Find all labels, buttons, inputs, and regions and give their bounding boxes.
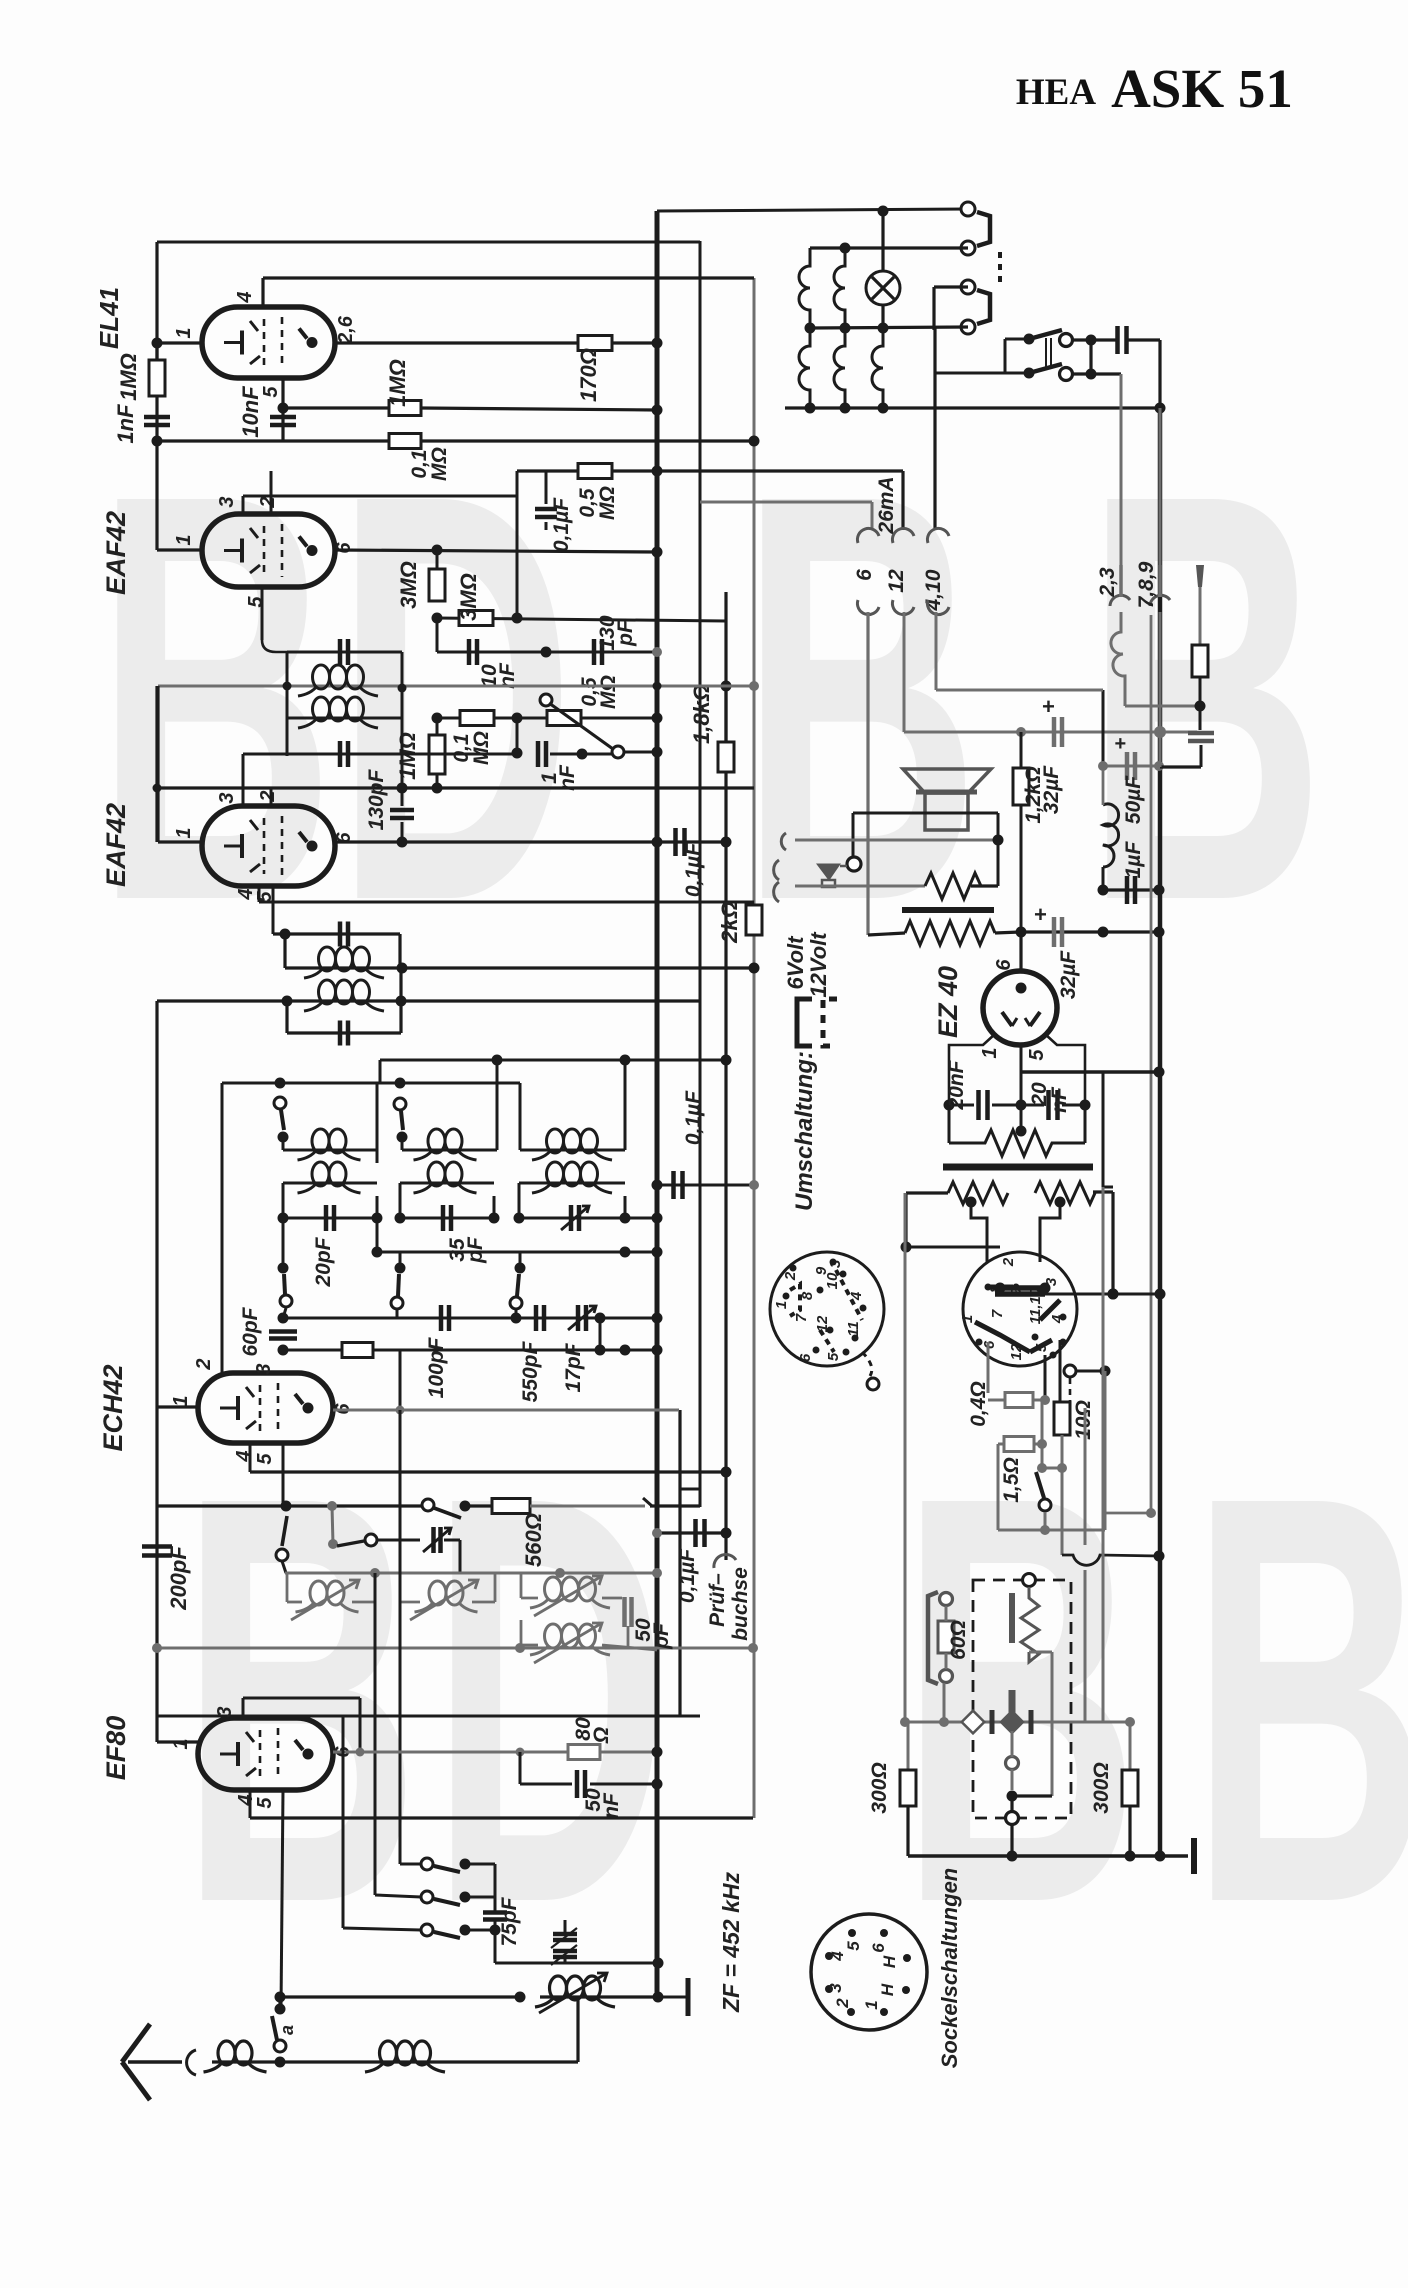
wire x=1151 grey parallel — [1150, 615, 1153, 1513]
switch link — [1045, 338, 1047, 368]
svg-text:12Volt: 12Volt — [806, 931, 831, 998]
svg-text:20nF: 20nF — [945, 1059, 968, 1110]
ground — [657, 1963, 660, 1997]
contact bar left — [990, 1710, 995, 1734]
wire to node — [258, 2060, 372, 2063]
switch a — [274, 2040, 286, 2052]
wire pin3 up — [242, 754, 245, 806]
wire pin2 up — [270, 788, 273, 806]
svg-text:2: 2 — [257, 790, 279, 802]
wire y=1722 line — [905, 1721, 1130, 1724]
svg-text:pF: pF — [614, 619, 637, 647]
svg-text:2: 2 — [193, 1358, 215, 1370]
svg-text:1: 1 — [170, 1395, 192, 1406]
svg-text:Prüf–: Prüf– — [706, 1573, 729, 1627]
wire x=949 down — [948, 1105, 951, 1143]
field coil choke — [1102, 690, 1105, 766]
node x=754 y=968 — [749, 963, 760, 974]
node x=287 y=1001 — [282, 996, 293, 1007]
svg-text:ECH42: ECH42 — [98, 1364, 128, 1451]
wire y=1060 line — [380, 1059, 726, 1062]
wire left rail x=157 lower — [155, 1001, 158, 1742]
trimmer antenna 2 — [553, 1949, 577, 1954]
svg-text:+: + — [1034, 902, 1047, 927]
svg-text:3: 3 — [214, 1706, 236, 1717]
svg-text:7: 7 — [989, 1309, 1006, 1318]
wire x=1103 mid — [1102, 1187, 1105, 1722]
capacitor right edge — [1199, 706, 1202, 730]
svg-text:4,10: 4,10 — [922, 569, 945, 611]
svg-text:11: 11 — [845, 1321, 862, 1337]
switch band col1 — [274, 1097, 286, 1109]
wire col1 left down — [282, 1183, 285, 1218]
switch row1 — [421, 1858, 433, 1870]
svg-text:EAF42: EAF42 — [101, 803, 131, 887]
rotary switch 12V (dashed) — [770, 1252, 884, 1366]
resistor fuse right — [1199, 565, 1202, 645]
transformer winding secondary a — [799, 328, 810, 408]
wire cathode line y=788 — [158, 786, 754, 789]
resistor 1,8kΩ — [724, 685, 727, 742]
vibrator contact diamond open — [962, 1711, 985, 1734]
wire y=1716 line — [157, 1715, 700, 1718]
60Ω bracket — [928, 1592, 938, 1684]
wire ground line y=1856 — [908, 1854, 1188, 1858]
capacitor 0,1µF (IF bus) — [657, 1184, 754, 1187]
vibrator stem — [1009, 1690, 1016, 1713]
svg-text:3: 3 — [253, 1363, 275, 1374]
wire x=222 to ECH42 — [221, 1083, 224, 1373]
terminal circle 4 — [961, 320, 975, 334]
wire y=886 line — [795, 885, 925, 888]
svg-text:1,5Ω: 1,5Ω — [1000, 1457, 1023, 1503]
svg-text:HEA: HEA — [1016, 72, 1096, 113]
wire bus x=700 — [699, 241, 702, 1507]
wire tube1 pin5 down — [261, 587, 264, 640]
wire pin5 down x=283 — [281, 1790, 283, 2009]
node y=410 bus — [652, 405, 663, 416]
trimmer antenna 1 — [564, 1920, 567, 1932]
svg-text:6: 6 — [853, 569, 876, 581]
capacitor 50pF — [602, 1597, 622, 1600]
contact bar right — [1029, 1710, 1034, 1734]
coil L3a — [520, 1149, 625, 1152]
node y=1752 bus — [652, 1747, 663, 1758]
wire x=868 heater line — [866, 612, 869, 935]
coil IFT2 secondary — [319, 980, 336, 1004]
switch row3 — [421, 1924, 433, 1936]
svg-text:1,8kΩ: 1,8kΩ — [689, 684, 714, 744]
wire x=1021 1045-1072 — [1020, 1045, 1023, 1105]
capacitor 130pF grid — [401, 788, 404, 806]
wire 170Ω to bus — [612, 341, 657, 344]
wire y=718 line — [437, 717, 460, 720]
node x=402 y=968 — [397, 963, 408, 974]
wire pin5 down — [282, 1443, 285, 1506]
terminal circle 1 — [961, 202, 975, 216]
wire anode EAF42#1 y=550 — [335, 550, 657, 552]
wire x=400 frame upper — [398, 934, 401, 968]
wire col1 right down — [376, 1196, 379, 1252]
tube EZ40 — [983, 971, 1057, 1045]
svg-text:0,1µF: 0,1µF — [682, 1090, 705, 1145]
wire 1MΩ to bus — [421, 408, 657, 410]
wire to x=400 — [373, 1349, 400, 1352]
capacitor 20nF right — [1021, 1104, 1044, 1107]
tube EL41 — [202, 307, 335, 378]
svg-text:200pF: 200pF — [166, 1546, 191, 1611]
wire y=1350 line — [283, 1349, 657, 1352]
node x=657 y=842 — [652, 837, 663, 848]
tube EF80 — [198, 1718, 333, 1790]
wire 1,2k down — [1020, 805, 1023, 932]
wire tap left step — [966, 1197, 977, 1208]
wire pot to bus — [581, 717, 657, 720]
svg-text:a: a — [277, 2025, 297, 2035]
connector 7,8,9 — [1150, 595, 1170, 606]
node pin5 junction — [278, 403, 289, 414]
wire x=1091 — [1089, 340, 1092, 374]
switch col2 row2 — [399, 1252, 402, 1268]
node x=625 y=1060 — [620, 1055, 631, 1066]
wire right bus x=1160 upper — [1158, 340, 1161, 408]
tube ECH42 — [198, 1373, 333, 1443]
switch osc1 — [282, 1516, 287, 1546]
svg-text:EAF42: EAF42 — [101, 511, 131, 595]
IFT2 frame left lower — [285, 1001, 288, 1033]
wire x=1085 down — [1084, 1105, 1087, 1143]
contact diamond solid — [999, 1709, 1024, 1734]
node x=402 y=842 — [397, 837, 408, 848]
wire heater right frame — [1093, 1190, 1113, 1193]
node T1 right — [398, 684, 407, 693]
capacitor IFT2 top — [338, 922, 343, 947]
speaker frame — [853, 812, 998, 815]
wire x=905 long — [904, 1193, 907, 1722]
wire y=1506 bus end — [650, 1504, 700, 1507]
vibrator wire out — [1029, 1651, 1052, 1654]
coil osc A — [286, 1573, 289, 1602]
wire coil to ground — [610, 1995, 658, 1998]
wire cap down — [545, 522, 548, 530]
svg-text:1: 1 — [979, 1047, 1001, 1058]
svg-text:3MΩ: 3MΩ — [456, 573, 481, 621]
wire x=1160 to connector — [1159, 408, 1162, 565]
svg-text:1nF: 1nF — [113, 404, 138, 444]
node pot bus — [652, 713, 663, 724]
resistor 1MΩ vertical — [436, 718, 439, 735]
svg-text:2: 2 — [833, 1998, 852, 2009]
svg-text:B: B — [1190, 1375, 1408, 2023]
node anode bus y=552 — [652, 547, 663, 558]
switch 1,5Ω — [1037, 1463, 1047, 1473]
capacitor 60pF — [278, 1313, 289, 1324]
capacitor 1µF — [1103, 888, 1159, 891]
wire 1MΩ to y=788 — [436, 774, 439, 788]
svg-text:1: 1 — [862, 2000, 881, 2009]
svg-text:ASK 51: ASK 51 — [1111, 58, 1293, 119]
svg-text:2: 2 — [1000, 1257, 1017, 1267]
wire x=1121 down — [1120, 374, 1123, 565]
capacitor 50nF — [519, 1752, 522, 1784]
node y=441 — [152, 436, 163, 447]
wire y=1963 line — [495, 1962, 658, 1965]
terminal circle 3 — [961, 280, 975, 294]
node y=1784 bus — [652, 1779, 663, 1790]
wire y=618 — [437, 618, 726, 621]
node y=1218 bus — [652, 1213, 663, 1224]
svg-text:MΩ: MΩ — [470, 731, 493, 765]
wire cathode y=1818 — [250, 1816, 753, 1819]
node x=285 y=934 — [280, 929, 291, 940]
transformer core — [902, 907, 994, 913]
vibrator top circle — [1023, 1574, 1036, 1587]
coil T1 primary — [313, 665, 330, 689]
wire x=872 to connector 6 — [871, 502, 874, 530]
headphone jack arcs — [781, 833, 786, 850]
vibrator capacitor bar — [1009, 1593, 1015, 1643]
svg-text:1MΩ: 1MΩ — [116, 353, 141, 401]
node x=402 y=788 — [397, 783, 408, 794]
svg-text:6: 6 — [333, 542, 355, 554]
coil IFT2 primary — [285, 966, 402, 969]
node antenna — [275, 2057, 286, 2068]
coil L3b — [519, 1182, 625, 1185]
wire x=1045 from switch — [1044, 1355, 1047, 1400]
wire top rail y=242 — [157, 241, 700, 244]
svg-text:3: 3 — [216, 496, 238, 507]
wire y=1294 line — [995, 1293, 1160, 1296]
svg-text:4: 4 — [234, 291, 256, 303]
transformer winding primary b — [834, 248, 845, 328]
node x=726 y=842 — [721, 837, 732, 848]
switch mains pole1 — [1024, 334, 1035, 345]
wire 0,1MΩ to x=754 — [421, 439, 754, 442]
node x=517 y=754 — [512, 748, 523, 759]
node x=437 y=718 — [432, 713, 443, 724]
svg-text:560Ω: 560Ω — [521, 1513, 546, 1567]
switch col1 row2 — [282, 1218, 285, 1268]
wire y=1472 line — [250, 1470, 726, 1473]
wire y=1083 line — [222, 1082, 520, 1085]
svg-text:MΩ: MΩ — [428, 447, 451, 481]
svg-text:6: 6 — [993, 959, 1015, 971]
coil osc C — [520, 1573, 523, 1598]
wire pole2 out — [1072, 372, 1121, 375]
node x=332 y=1506 — [327, 1501, 337, 1511]
svg-text:EZ 40: EZ 40 — [933, 966, 963, 1038]
wire left rail x=157 mid — [155, 686, 158, 842]
switch row2 — [421, 1891, 433, 1903]
svg-text:1: 1 — [959, 1315, 976, 1323]
capacitor 10nF coupling — [467, 639, 472, 665]
node grid EL41 — [152, 338, 163, 349]
svg-text:100pF: 100pF — [425, 1336, 448, 1398]
wire x=400 to switch row1 — [399, 1410, 402, 1864]
wire 1,5Ω frame — [998, 1443, 1004, 1446]
wire to pot — [494, 717, 547, 720]
node x=600 y=1318 — [595, 1313, 606, 1324]
wire grid ECH42 — [157, 1405, 198, 1408]
trimmer 17pF — [576, 1305, 581, 1331]
wire y=1489 — [680, 1488, 700, 1491]
svg-text:1µF: 1µF — [1122, 841, 1145, 879]
coil L1b — [283, 1182, 377, 1185]
wire x=546 drop — [545, 471, 548, 504]
wire col1 right up — [376, 1150, 379, 1163]
loudspeaker magnet — [925, 793, 968, 830]
wire y=496 — [243, 495, 517, 498]
wire cap to x=1160 — [1127, 338, 1160, 341]
wire IFT2 top cap line — [273, 932, 400, 935]
wire y=902 to 2kΩ — [259, 901, 754, 904]
svg-text:2,3: 2,3 — [1096, 567, 1119, 598]
terminal bracket top — [977, 212, 990, 246]
IFT2 frame right lower — [399, 1001, 402, 1033]
wire y=471 to connector 12 — [901, 471, 904, 530]
wire x=1021 to EZ40 top — [1019, 932, 1022, 972]
wire x=936 connector 4,10 — [933, 328, 936, 530]
capacitor 20nF left — [944, 1100, 955, 1111]
svg-text:Umschaltung:: Umschaltung: — [791, 1051, 818, 1211]
coil antenna tuning — [550, 1976, 567, 2000]
wire y=1530 — [998, 1529, 1105, 1532]
node y=441 x=754 — [749, 436, 760, 447]
node x=280 y=1083 — [275, 1078, 286, 1089]
coil L2a — [401, 1137, 404, 1150]
wire anode EF80 y=1752 — [333, 1751, 568, 1754]
antenna — [122, 2024, 150, 2062]
svg-text:300Ω: 300Ω — [868, 1762, 891, 1813]
wire x=517 718-753 — [516, 718, 519, 753]
svg-text:3: 3 — [826, 1983, 845, 1993]
wire y=211 to terminal — [657, 209, 968, 211]
wire 10Ω bottom — [1061, 1435, 1064, 1468]
svg-text:26mA: 26mA — [875, 476, 898, 534]
coil antenna 2 — [380, 2041, 397, 2065]
wire y=652 line — [437, 651, 657, 654]
svg-text:5: 5 — [254, 1797, 276, 1809]
svg-text:1: 1 — [173, 827, 195, 838]
capacitor 20pF — [324, 1205, 329, 1231]
capacitor 0,1µF anode — [673, 828, 678, 856]
wire x=868 corner — [868, 933, 905, 935]
terminal bracket bottom — [977, 290, 990, 324]
wire grid EF80 — [157, 1740, 198, 1743]
wire 1nF right — [550, 753, 612, 756]
wire y=932 line — [1021, 930, 1159, 933]
svg-text:4: 4 — [828, 1951, 847, 1962]
wire anode y=842 — [335, 840, 726, 843]
wire y=471 line — [517, 469, 903, 472]
loudspeaker cone — [903, 769, 991, 793]
svg-text:MΩ: MΩ — [597, 675, 620, 709]
wire y=248 winding top — [810, 246, 968, 249]
node wiper bus — [652, 747, 663, 758]
connector output — [847, 857, 861, 871]
capacitor 1nF — [536, 741, 541, 767]
wire y=408 line — [283, 406, 389, 409]
socket circle — [811, 1914, 927, 2030]
svg-text:60pF: 60pF — [239, 1306, 262, 1356]
svg-text:pF: pF — [464, 1236, 487, 1264]
wire x=495 down — [494, 1930, 497, 1963]
svg-text:6: 6 — [869, 1943, 888, 1953]
svg-text:EF80: EF80 — [101, 1716, 131, 1781]
coil T1 secondary — [313, 697, 330, 721]
wire x=343 from y=1716 — [342, 1716, 345, 1928]
wire x=375 to switch row — [374, 1573, 377, 1895]
wire y=1001 line — [157, 999, 700, 1002]
switch wave band — [422, 1499, 434, 1511]
node x=883 y=211 — [878, 206, 889, 217]
wire pin4 down — [258, 886, 261, 902]
potentiometer 0,5MΩ — [547, 711, 581, 726]
trimmer col3 — [569, 1205, 574, 1231]
wire heater left frame — [906, 1191, 948, 1194]
capacitor 550pF — [534, 1305, 539, 1331]
node anode bus — [652, 338, 663, 349]
wire y=732 line — [904, 731, 1197, 734]
wire x=934 drop — [932, 287, 935, 330]
tube EAF42 second — [202, 806, 335, 886]
rotary levers — [990, 1285, 1013, 1290]
resistor surge zigzag — [1020, 1105, 1023, 1131]
wire screen pin4 — [261, 278, 264, 307]
wire y=328 — [810, 327, 968, 328]
svg-text:12: 12 — [885, 569, 908, 593]
legend bracket dashed — [823, 999, 837, 1046]
wire bus x=726 — [724, 592, 727, 742]
wire anode EL41 y=343 — [335, 341, 578, 344]
svg-text:0,1µF: 0,1µF — [682, 842, 705, 897]
node x=753 y=1648 — [748, 1643, 758, 1653]
capacitor 35pF — [441, 1205, 446, 1231]
node x=726 y=1060 — [721, 1055, 732, 1066]
resistor 0,1MΩ — [460, 711, 494, 726]
heater transformer core — [943, 1164, 1093, 1171]
capacitor 1nF — [144, 415, 170, 420]
wire x=1160 segment — [1159, 612, 1162, 767]
vibrator resistor zigzag — [1021, 1587, 1039, 1662]
wire y=1318 line — [283, 1317, 657, 1320]
svg-text:20pF: 20pF — [312, 1236, 335, 1287]
resistor 3MΩ vertical — [429, 569, 445, 601]
svg-text:3: 3 — [216, 792, 238, 803]
wire x=1085 long — [1084, 1408, 1087, 1545]
wire y=502 line — [700, 501, 872, 504]
wire pin4 down — [249, 1443, 252, 1472]
rotary switch 6V (solid) — [963, 1252, 1077, 1366]
svg-text:1MΩ: 1MΩ — [395, 732, 420, 780]
svg-text:1MΩ: 1MΩ — [385, 359, 410, 407]
switch col3 row2 — [519, 1252, 522, 1268]
node x=437 y=618 — [432, 613, 443, 624]
wire y=690 — [936, 689, 1103, 692]
wire y=1072 cathode — [1021, 1070, 1159, 1074]
wire left rail x=157 upper — [155, 242, 158, 550]
wire x=437 y618-652 — [436, 618, 439, 652]
wire 80Ω to bus — [600, 1751, 657, 1754]
resistor 1,2kΩ — [1020, 732, 1023, 768]
heater winding left — [948, 1182, 1008, 1204]
coil osc C2 — [520, 1620, 523, 1645]
transformer winding secondary b — [834, 328, 845, 408]
wire y=1218 col2 — [400, 1217, 494, 1220]
switch wiper arm — [540, 694, 552, 706]
svg-text:6Volt: 6Volt — [783, 935, 808, 990]
capacitor 32µF output — [1052, 917, 1057, 947]
